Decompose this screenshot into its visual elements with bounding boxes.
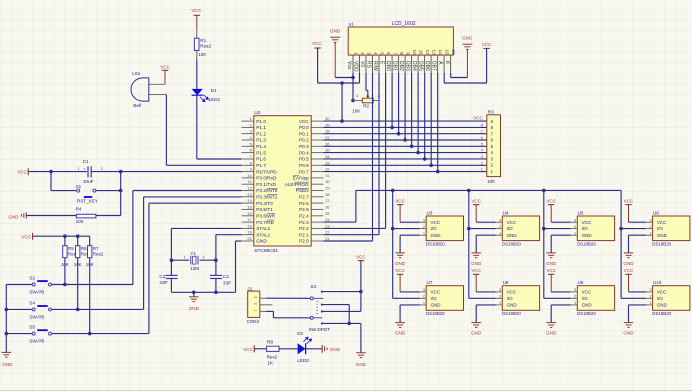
wire R4 to junction [96,215,121,217]
pin U2.21 P2.0 [311,240,323,242]
wire R1 to D1 [196,60,198,89]
svg-text:P3.1/TxD: P3.1/TxD [256,182,276,187]
wire U2 XTAL1 to Y1 [216,234,242,236]
wire LCD DB6 to U2 P0.6 [430,73,432,165]
svg-text:R1: R1 [200,38,206,43]
svg-text:18: 18 [247,223,252,228]
svg-text:GND: GND [2,362,13,367]
svg-text:1: 1 [499,230,501,235]
pin LCD.7 DB0 [391,55,393,73]
svg-text:12M: 12M [190,266,199,271]
svg-text:U5: U5 [578,210,584,215]
svg-text:100: 100 [198,52,206,57]
svg-text:DB7: DB7 [431,61,437,71]
svg-text:VCC: VCC [507,290,517,295]
node Y1 left [170,258,174,262]
wire LCD E to U2 P2.2 [385,73,387,228]
svg-text:Res2: Res2 [267,355,278,360]
svg-text:R6: R6 [81,246,87,251]
svg-text:16: 16 [451,49,456,55]
svg-text:3: 3 [423,217,425,222]
svg-text:10: 10 [247,173,252,178]
svg-text:DB6: DB6 [424,61,430,71]
svg-text:R2: R2 [363,103,369,108]
pin U2.31 EA/Vpp [311,177,323,179]
svg-text:1: 1 [649,230,651,235]
svg-text:VCC: VCC [657,290,667,295]
svg-text:DS18B20: DS18B20 [502,241,521,246]
svg-text:1: 1 [649,300,651,305]
svg-text:P1.4: P1.4 [256,144,266,149]
svg-text:GND: GND [623,331,634,336]
wire LCD DB7 to U2 P0.7 [437,73,439,172]
svg-text:U10: U10 [653,280,662,285]
wire U8 GND pin [476,304,496,306]
wire U10 VCC pin [629,291,647,293]
wire C1 to U2 pin9 RST [91,171,241,173]
svg-text:P0.4: P0.4 [299,150,309,155]
svg-text:VCC: VCC [17,170,27,175]
pin U2.7 P1.6 [242,158,254,160]
wire LS1 to U2 pin8 P1.7 [165,95,167,166]
svg-text:GND: GND [256,239,267,244]
svg-text:VCC: VCC [21,234,31,239]
pin LCD.10 DB3 [411,55,413,73]
wire U10 GND pin [629,304,647,306]
pin J1.1 [260,310,266,312]
svg-text:RST/VPD: RST/VPD [256,169,277,174]
wire to S1 left [50,172,52,191]
svg-text:RST_KEY: RST_KEY [77,199,98,204]
pin U2.10 P3.0/RxD [242,177,254,179]
svg-text:LCD_1602: LCD_1602 [392,21,416,27]
resistor R8 [267,346,279,351]
svg-text:P0.3: P0.3 [299,144,309,149]
svg-text:25: 25 [325,211,330,216]
svg-text:10K: 10K [76,219,85,224]
svg-text:DS18B20: DS18B20 [426,241,445,246]
svg-text:P2.0: P2.0 [299,239,309,244]
wire LCD K to GND [451,77,468,79]
svg-text:SW-DPDT: SW-DPDT [309,327,331,332]
wire LCD DB4 to U2 P0.4 [417,73,419,153]
wire U5 GND pin [551,234,571,236]
svg-text:DS18B20: DS18B20 [652,241,671,246]
wire U8 IO pin [469,297,496,299]
wire LCD Vss down to R2 [352,78,354,101]
pin U2.32 P0.7 [311,171,323,173]
svg-text:U8: U8 [503,280,509,285]
svg-text:2: 2 [253,303,257,305]
svg-text:RS: RS [366,61,372,69]
svg-text:35: 35 [325,148,330,153]
wire U8 VCC pin [476,291,496,293]
svg-text:I/O: I/O [657,226,664,231]
svg-text:26: 26 [325,204,330,209]
svg-text:S5: S5 [29,325,35,330]
svg-text:U9: U9 [578,280,584,285]
wire S2 to U2 [52,284,133,286]
wire LCD DB2 to U2 P0.2 [404,73,406,140]
svg-text:DS18B20: DS18B20 [426,311,445,316]
svg-text:I/O: I/O [431,296,438,301]
wire LCD DB1 to U2 P0.1 [398,73,400,134]
svg-text:VCC: VCC [243,347,253,352]
wire U2 P0.4 to R3 pin4 [324,152,487,154]
pin U2.12 P3.2/INT0 [242,190,254,192]
resistor R2 10K [362,98,373,103]
wire sensor column 3 [543,190,545,298]
svg-text:15: 15 [247,204,252,209]
svg-text:VDD: VDD [353,61,359,72]
svg-text:29: 29 [325,186,330,191]
wire U9 VCC pin [551,291,571,293]
svg-text:GND: GND [507,303,518,308]
wire GND to R4 [26,215,76,217]
pin U2.27 P2.6 [311,202,323,204]
svg-text:R8: R8 [267,339,273,344]
svg-text:P2.3: P2.3 [299,220,309,225]
svg-text:VCC: VCC [299,119,310,124]
svg-text:LED0: LED0 [297,358,309,363]
svg-text:S4: S4 [29,300,35,305]
svg-text:16: 16 [247,211,252,216]
pin J1.2 [260,304,273,306]
svg-text:1: 1 [574,300,576,305]
svg-text:10: 10 [412,49,417,55]
pin LCD.6 E [385,55,387,73]
svg-text:GND: GND [546,261,557,266]
pin LCD.4 RS [372,55,374,73]
svg-text:2: 2 [649,224,651,229]
svg-text:14: 14 [247,198,252,203]
svg-text:2: 2 [499,224,501,229]
svg-text:P0.5: P0.5 [299,157,309,162]
svg-text:V0: V0 [359,61,365,67]
svg-text:VCC: VCC [482,42,492,47]
svg-text:40: 40 [325,116,330,121]
svg-text:S1: S1 [76,184,82,189]
ground (U8) [471,322,481,324]
pin LCD.12 DB5 [424,55,426,73]
wire J1.3 to S3 [266,297,310,299]
wire VCC pullup rail [33,235,90,237]
svg-text:DB4: DB4 [411,61,417,71]
svg-text:I/O: I/O [431,226,438,231]
wire U6 VCC pin [629,221,647,223]
svg-text:GND: GND [431,233,442,238]
pin U2.6 P1.5 [242,152,254,154]
svg-text:U4: U4 [503,210,509,215]
svg-text:C2: C2 [223,274,229,279]
switch S2 SW-PB [6,284,32,286]
wire LCD Vss to GND [335,77,353,79]
svg-text:P3.2/INT0: P3.2/INT0 [256,188,278,193]
svg-text:P2.7: P2.7 [299,195,309,200]
pin U2.24 P2.3 [311,221,323,223]
pin R1.1 [196,29,198,38]
svg-text:15: 15 [445,49,450,55]
svg-text:P2.5: P2.5 [299,207,309,212]
wire LCD DB0 to U2 P0.0 [391,73,393,127]
svg-text:33: 33 [325,160,330,165]
svg-text:13: 13 [432,49,437,55]
svg-text:6: 6 [386,52,391,55]
svg-text:VCC: VCC [624,268,634,273]
svg-text:10K: 10K [352,108,361,113]
svg-text:P3.3/INT1: P3.3/INT1 [256,195,278,200]
svg-text:DB3: DB3 [405,61,411,71]
pin U2.19 XTAL1 [242,234,254,236]
svg-text:DS18B20: DS18B20 [502,311,521,316]
wire U4 GND pin [476,234,496,236]
svg-text:3: 3 [574,217,576,222]
wire U6 GND pin [629,234,647,236]
svg-text:24: 24 [325,217,330,222]
sheet bottom edge [0,390,692,392]
pin U2.23 P2.2 [311,227,323,229]
svg-text:P3.4/T0: P3.4/T0 [256,201,273,206]
svg-text:22: 22 [325,230,330,235]
pin U2.29 PSEN [311,190,323,192]
svg-text:LS1: LS1 [132,71,141,76]
svg-text:21: 21 [325,236,330,241]
svg-text:P3.7/RD: P3.7/RD [256,220,274,225]
wire LCD VDD to VCC [318,82,360,84]
svg-text:P3.6/WR: P3.6/WR [256,213,275,218]
svg-text:VCC: VCC [473,116,483,121]
pin LCD.15 A [443,55,445,73]
wire button common to GND [5,285,7,353]
svg-text:I/O: I/O [507,226,514,231]
wire LCD DB3 to U2 P0.3 [411,73,413,146]
wire U2 P2.3 riser to sensor bus [324,221,356,223]
svg-text:3: 3 [499,287,501,292]
pin U2.25 P2.4 [311,215,323,217]
pin R2.1 [353,100,362,102]
svg-text:VCC: VCC [657,220,667,225]
node Y1 right [214,258,218,262]
svg-text:P1.6: P1.6 [256,157,266,162]
ground (U3) [395,252,405,254]
pin U2.33 P0.6 [311,164,323,166]
pin U2.2 P1.1 [242,126,254,128]
svg-text:SW-PB: SW-PB [29,290,44,295]
svg-text:XTAL1: XTAL1 [256,232,270,237]
pin U2.22 P2.1 [311,234,323,236]
svg-text:XTAL2: XTAL2 [256,226,270,231]
svg-text:C1: C1 [83,159,89,164]
svg-text:U6: U6 [653,210,659,215]
svg-text:37: 37 [325,135,330,140]
wire VCC to R8 [254,348,266,350]
svg-text:I/O: I/O [582,296,589,301]
pin LCD.2 VDD [359,55,361,73]
svg-text:P2.2: P2.2 [299,226,309,231]
svg-text:3: 3 [649,287,651,292]
pin LCD.1 Vss [352,55,354,73]
switch S4 SW-PB [6,308,32,310]
svg-text:VCC: VCC [395,198,405,203]
wire LCD A to VCC [444,82,486,84]
svg-text:DB2: DB2 [398,61,404,71]
svg-text:GND: GND [395,261,406,266]
wire U2 P0.2 to R3 pin6 [324,139,487,141]
svg-text:23: 23 [325,223,330,228]
pin J1.3 [260,297,266,299]
wire S5 to U2 [52,333,149,335]
pin U2.14 P3.4/T0 [242,202,254,204]
wire U10 IO pin [621,297,646,299]
svg-text:Y1: Y1 [190,251,196,256]
svg-text:GND: GND [395,331,406,336]
svg-text:27: 27 [325,198,330,203]
svg-text:PSEN: PSEN [296,188,309,193]
svg-text:7: 7 [393,52,398,55]
svg-text:LED2: LED2 [209,97,221,102]
resistor R7 [89,236,91,246]
pin LCD.9 DB2 [404,55,406,73]
svg-text:33P: 33P [223,281,231,286]
svg-text:VCC: VCC [431,290,441,295]
svg-text:1: 1 [499,300,501,305]
svg-text:4: 4 [373,52,378,55]
svg-text:GND: GND [356,362,367,367]
svg-text:VCC: VCC [624,198,634,203]
svg-text:EA/Vpp: EA/Vpp [293,176,309,181]
ground (U7) [395,322,405,324]
svg-text:SW-PB: SW-PB [29,339,44,344]
svg-text:32: 32 [325,167,330,172]
svg-text:2: 2 [499,294,501,299]
wire U5 IO pin [544,228,571,230]
wire U7 GND pin [400,304,420,306]
wire U4 IO pin [469,228,496,230]
resistor R5 [64,236,66,246]
svg-text:Res2: Res2 [93,252,104,257]
svg-text:VCC: VCC [356,255,366,260]
svg-text:2: 2 [423,224,425,229]
svg-text:12: 12 [425,49,430,55]
svg-text:31: 31 [325,173,330,178]
wire D1 to U2 pin7 P1.6 [196,95,198,159]
resistor R6 [77,236,79,246]
svg-text:GND: GND [330,347,341,352]
svg-text:34: 34 [325,154,330,159]
wire U2 pin20 GND [236,240,242,242]
wire U2 P0.7 to R3 pin1 [324,171,487,173]
pin LCD.3 V0 [365,55,367,73]
pin LCD.14 DB7 [437,55,439,73]
svg-text:GND: GND [462,35,473,40]
wire U7 IO pin [393,297,420,299]
svg-text:DB1: DB1 [392,61,398,71]
svg-text:2: 2 [423,294,425,299]
svg-text:3: 3 [649,217,651,222]
svg-text:P2.1: P2.1 [299,232,309,237]
svg-text:33P: 33P [159,280,167,285]
pin U2.20 GND [242,240,254,242]
svg-text:VCC: VCC [395,268,405,273]
wire VCC row U2 pin40 to R3 pin9 [324,120,487,122]
svg-text:3: 3 [499,217,501,222]
wire S4 to U2 [52,308,144,310]
pin LCD.5 R/W [378,55,380,73]
pin LCD.8 DB1 [398,55,400,73]
pin U2.36 P0.3 [311,145,323,147]
svg-text:U3: U3 [427,210,433,215]
wire LCD R/W to U2 P2.1 [378,73,380,235]
svg-text:GND: GND [330,28,341,33]
wire sensor column 1 [392,190,394,298]
wire sensor column 2 [468,190,470,298]
wire R8 to D2 [279,348,298,350]
wire VCC to C1 [28,171,87,173]
svg-text:Res2: Res2 [200,44,211,49]
svg-text:5: 5 [380,52,385,55]
svg-text:GND: GND [582,233,593,238]
svg-text:1: 1 [574,230,576,235]
pin U2.9 RST/VPD [242,171,254,173]
pin U2.13 P3.3/INT1 [242,196,254,198]
pin U2.34 P0.5 [311,158,323,160]
svg-text:20: 20 [247,236,252,241]
ground (S3) [360,323,362,352]
svg-text:19: 19 [247,230,252,235]
svg-text:9: 9 [406,52,411,55]
wire U2 P0.3 to R3 pin5 [324,145,487,147]
pin U2.35 P0.4 [311,152,323,154]
svg-text:30: 30 [325,179,330,184]
svg-text:14: 14 [438,49,443,55]
svg-text:VCC: VCC [312,41,322,46]
wire LCD RS to U2 P2.0 [372,73,374,241]
svg-text:ALE/PROG: ALE/PROG [285,182,309,187]
svg-text:1: 1 [253,309,257,311]
ground (U4) [471,252,481,254]
svg-text:GND: GND [546,331,557,336]
svg-text:P2.4: P2.4 [299,213,309,218]
pin LS1.2 [149,94,167,96]
svg-text:P0.7: P0.7 [299,169,309,174]
svg-text:39: 39 [325,122,330,127]
ground (U6) [624,252,634,254]
svg-text:GND: GND [189,306,200,311]
LED D2 [298,343,306,354]
svg-text:13: 13 [247,192,252,197]
svg-text:VCC: VCC [546,198,556,203]
pin U2.11 P3.1/TxD [242,183,254,185]
pin R1.2 [196,51,198,61]
svg-text:2: 2 [360,52,365,55]
pin U2.17 P3.7/RD [242,221,254,223]
svg-text:1: 1 [423,300,425,305]
svg-text:P0.2: P0.2 [299,138,309,143]
pin U2.5 P1.4 [242,145,254,147]
wire U5 VCC pin [551,221,571,223]
svg-text:U7: U7 [427,280,433,285]
svg-text:12: 12 [247,186,252,191]
wire U2 P0.6 to R3 pin2 [324,164,487,166]
svg-text:DS18B20: DS18B20 [577,241,596,246]
svg-text:P1.3: P1.3 [256,138,266,143]
svg-text:CON3: CON3 [247,319,260,324]
pin U2.8 P1.7 [242,164,254,166]
svg-text:P2.6: P2.6 [299,201,309,206]
pin LCD.11 DB4 [417,55,419,73]
svg-text:VCC: VCC [471,198,481,203]
ground (U10) [624,322,634,324]
